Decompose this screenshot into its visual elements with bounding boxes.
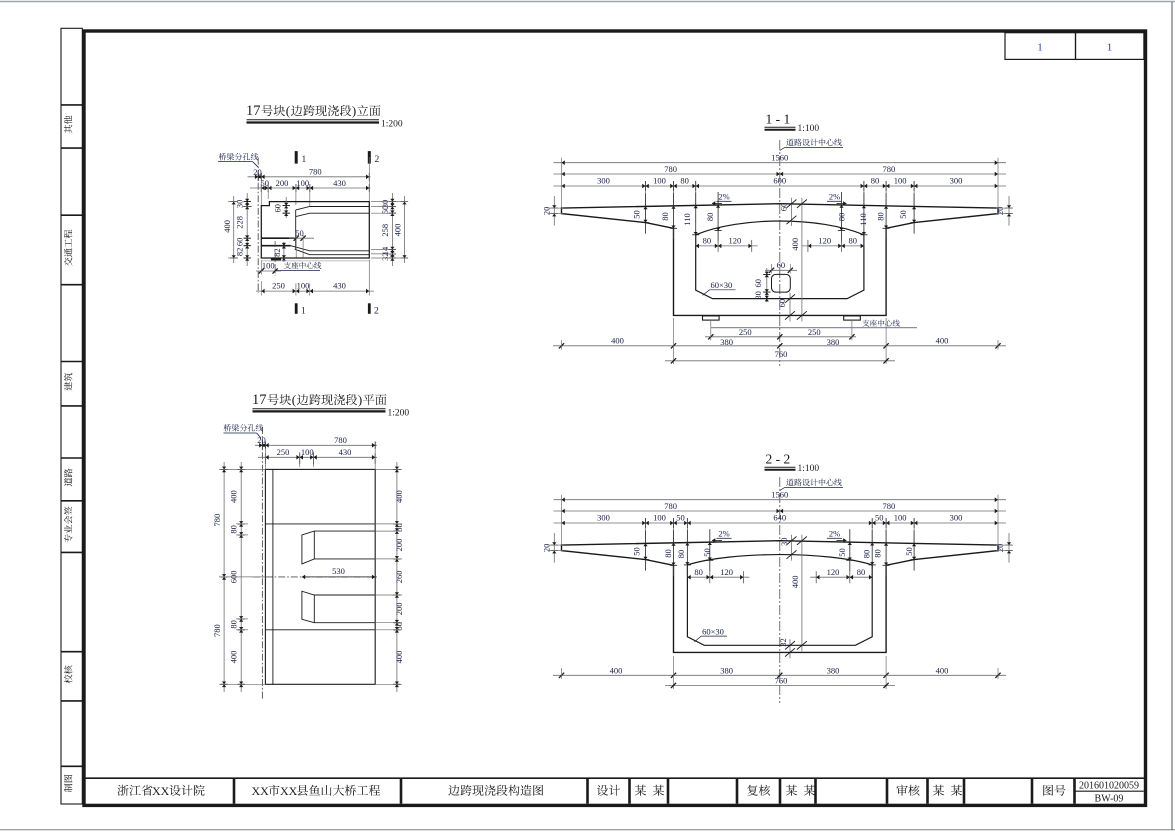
svg-text:80: 80 [848, 236, 857, 246]
svg-text:60: 60 [235, 238, 245, 247]
svg-text:780: 780 [664, 164, 677, 174]
svg-text:430: 430 [333, 281, 346, 291]
svg-text:1:200: 1:200 [381, 120, 403, 130]
dim row 760 (1-1) [665, 360, 895, 362]
svg-text:XX: XX [280, 784, 298, 798]
svg-text:60×30: 60×30 [711, 280, 733, 290]
svg-text:400: 400 [229, 490, 239, 503]
svg-text:250: 250 [739, 327, 752, 337]
title block cell 某 某 (reviewer) [933, 785, 962, 796]
svg-text:): ) [358, 392, 362, 407]
plan inner edge line [272, 469, 274, 684]
svg-text:780: 780 [883, 164, 896, 174]
svg-text:17: 17 [252, 392, 267, 408]
title block cell 审核 [896, 785, 919, 796]
svg-text:200: 200 [394, 603, 404, 616]
sidebar label 校核 [64, 665, 72, 683]
title block cell 复核 [747, 785, 770, 796]
svg-text:100: 100 [301, 447, 314, 457]
svg-text:60: 60 [779, 203, 789, 212]
svg-text:430: 430 [333, 178, 346, 188]
interior 80 120 dims [687, 576, 749, 578]
title block cell 图号 [1043, 785, 1065, 796]
svg-text:80: 80 [705, 213, 715, 222]
svg-text:100: 100 [653, 175, 666, 185]
plan upper void outline [302, 531, 375, 564]
sidebar label 交通工程 [64, 230, 72, 266]
svg-text:60: 60 [273, 204, 283, 213]
svg-text:250: 250 [272, 281, 285, 291]
svg-text:100: 100 [296, 178, 309, 188]
plan left witness lines [219, 468, 265, 470]
inner void outline [687, 555, 872, 646]
plan centerline dash-dot [253, 576, 378, 578]
svg-text:20: 20 [257, 435, 266, 445]
sidebar label 专业会签 [64, 506, 73, 542]
svg-text:1: 1 [302, 155, 307, 165]
svg-text:100: 100 [297, 281, 310, 291]
plan left outer chain 780/780 [223, 462, 225, 692]
svg-text:50: 50 [898, 210, 908, 219]
svg-text:120: 120 [827, 567, 840, 577]
small vertical dims near webs [645, 193, 647, 233]
svg-text:780: 780 [212, 624, 222, 637]
void left edge [295, 210, 297, 249]
drawing number cell divider [1075, 790, 1144, 792]
svg-text:100: 100 [894, 175, 907, 185]
svg-text:400: 400 [611, 336, 624, 346]
svg-text:780: 780 [664, 501, 677, 511]
grey helper line under girder bottom [262, 260, 370, 262]
svg-text:780: 780 [309, 167, 322, 177]
elevation girder outline [261, 202, 369, 258]
center oblique dims [791, 535, 793, 561]
svg-text:250: 250 [277, 447, 290, 457]
sidebar label 制图 [64, 775, 72, 792]
title block cell 某 某 (checker) [786, 785, 815, 796]
dim row 250 250 [705, 336, 856, 338]
svg-text:2%: 2% [718, 192, 729, 202]
svg-text:780: 780 [212, 514, 222, 527]
interior 80 120 dims [696, 245, 758, 247]
title block cell 设计 [597, 785, 620, 796]
svg-text:60: 60 [777, 299, 787, 308]
page number boxes top right [1005, 33, 1076, 60]
svg-text:780: 780 [334, 435, 347, 445]
svg-text:760: 760 [775, 675, 788, 685]
bearing pads (section 1-1) [703, 316, 720, 320]
svg-text:300: 300 [597, 512, 610, 522]
svg-text:400: 400 [222, 220, 232, 233]
svg-text:50: 50 [632, 547, 642, 556]
svg-text:120: 120 [729, 236, 742, 246]
svg-text:80: 80 [663, 549, 673, 558]
svg-text:50: 50 [875, 512, 884, 522]
svg-text:250: 250 [808, 327, 821, 337]
svg-text:400: 400 [610, 665, 623, 675]
dim row 760 (2-2) [665, 684, 895, 686]
svg-text:(: ( [286, 103, 290, 118]
drain hole (1-1) octagon [772, 274, 791, 292]
svg-text:2%: 2% [829, 192, 840, 202]
svg-text:50: 50 [260, 178, 269, 188]
svg-text:380: 380 [827, 665, 840, 675]
svg-text:2: 2 [375, 155, 380, 165]
center oblique dims [791, 198, 793, 226]
svg-text:32: 32 [778, 638, 788, 647]
svg-text:17: 17 [246, 103, 261, 119]
svg-text:80: 80 [676, 550, 686, 559]
svg-text:30: 30 [779, 538, 789, 547]
plan right witness lines [375, 468, 402, 470]
section mark 2 (bottom) [368, 303, 371, 314]
svg-text:300: 300 [950, 175, 963, 185]
svg-text:50: 50 [904, 547, 914, 556]
ledge lines in solid block [261, 237, 294, 239]
small vertical dims near webs [645, 530, 647, 570]
svg-text:228: 228 [235, 216, 245, 229]
girder cross-section outline [562, 541, 999, 653]
svg-text:640: 640 [773, 512, 786, 522]
dim row 1560 [554, 499, 1007, 501]
svg-text:200: 200 [276, 178, 289, 188]
drain hole height dims 60 / 30 [766, 268, 768, 302]
svg-text:2: 2 [374, 306, 379, 316]
dim row 300 100 80 600 80 100 300 [554, 185, 1007, 187]
drain hole width dim 60 [765, 269, 797, 271]
svg-text:2 - 2: 2 - 2 [766, 452, 791, 467]
elevation left dim chain 30 228 60 82 [246, 193, 248, 266]
plan bridge split line dash-dot [261, 427, 263, 700]
title block cell 浙江省XX设计院 [117, 785, 152, 796]
dim row 780 780 [554, 173, 1007, 175]
title block top line [84, 777, 1146, 779]
svg-text:50: 50 [676, 512, 685, 522]
svg-text:80: 80 [660, 212, 670, 221]
section vertical centerline [779, 140, 781, 366]
svg-text:2%: 2% [718, 529, 729, 539]
sidebar label 建筑 [64, 373, 72, 391]
svg-text:80: 80 [873, 549, 883, 558]
plan left inner chain 400 80 600 80 400 [240, 462, 242, 692]
svg-text:XX: XX [252, 784, 270, 798]
svg-text:1: 1 [1037, 42, 1043, 54]
dim row 400 380 380 400 (1-1) [553, 345, 1006, 347]
svg-text:82: 82 [235, 248, 245, 257]
page right edge line [1171, 2, 1173, 830]
svg-text:50: 50 [702, 548, 712, 557]
svg-text:600: 600 [773, 175, 786, 185]
sidebar divider lines [61, 104, 82, 106]
plan 530 dim on centerline [302, 575, 305, 580]
dim row 780 780 [554, 510, 1007, 512]
elevation right dim chain 30 50 258 14 32 [391, 193, 393, 266]
elevation dim row 50 200 100 430 [250, 187, 371, 189]
svg-text:(: ( [292, 392, 296, 407]
svg-text:50: 50 [394, 622, 404, 631]
svg-text:110: 110 [858, 213, 868, 225]
sidebar label 道路 [64, 468, 72, 486]
bearing centerline label 支座中心线 (1-1) [862, 320, 900, 327]
inner void outline [696, 221, 864, 299]
svg-text:760: 760 [775, 349, 788, 359]
bearing centerline [274, 241, 276, 276]
section vertical centerline [779, 477, 781, 703]
svg-text:80: 80 [229, 620, 239, 629]
svg-text:80: 80 [875, 212, 885, 221]
svg-text:120: 120 [818, 236, 831, 246]
girder cross-section outline [562, 204, 999, 316]
road design centerline label 道路设计中心线 [786, 139, 841, 146]
sidebar column outline [61, 28, 82, 804]
svg-text:200: 200 [394, 539, 404, 552]
top slab underside lines [296, 207, 370, 210]
dim 100 bearing offset [256, 270, 281, 272]
label 支座中心线 (elevation) [284, 262, 322, 269]
svg-text:100: 100 [894, 512, 907, 522]
svg-text:82: 82 [272, 248, 282, 257]
svg-text:400: 400 [936, 336, 949, 346]
82 dim at bearing ledge [283, 242, 285, 262]
witness lines top [561, 158, 563, 208]
svg-text:530: 530 [332, 566, 345, 576]
svg-text:80: 80 [680, 175, 689, 185]
svg-text:400: 400 [790, 576, 800, 589]
section mark 1 (top) [295, 151, 298, 164]
svg-text:380: 380 [720, 665, 733, 675]
svg-text:260: 260 [394, 571, 404, 584]
road design centerline label 道路设计中心线 [786, 479, 841, 486]
svg-text:80: 80 [861, 550, 871, 559]
svg-text:400: 400 [229, 651, 239, 664]
svg-text:BW-09: BW-09 [1095, 794, 1124, 805]
svg-text:110: 110 [682, 213, 692, 225]
page bottom edge line [0, 829, 1175, 831]
svg-text:60: 60 [753, 279, 763, 288]
svg-text:380: 380 [827, 337, 840, 347]
svg-text:100: 100 [653, 512, 666, 522]
svg-text:201601020059: 201601020059 [1079, 780, 1139, 791]
witness verticals from top dims [260, 179, 262, 206]
witness lines top [561, 495, 563, 545]
svg-text:1560: 1560 [771, 489, 788, 499]
svg-text:50: 50 [632, 210, 642, 219]
60 dim near step [285, 197, 287, 218]
svg-text:80: 80 [871, 175, 880, 185]
svg-text:80: 80 [836, 213, 846, 222]
title block cell 某 某 (designer) [635, 785, 664, 796]
title block cell dividers [233, 778, 236, 804]
svg-text:1560: 1560 [771, 152, 788, 162]
svg-text:60×30: 60×30 [702, 626, 724, 636]
svg-text:1:200: 1:200 [388, 409, 410, 419]
bearing pad (elevation) [271, 258, 281, 260]
elevation bottom dim 250 100 430 [256, 290, 374, 292]
label 桥梁分孔线 (plan) [224, 424, 264, 431]
plan lower void outline [302, 591, 375, 623]
svg-text:380: 380 [720, 337, 733, 347]
plan top dim row 20 | 780 [255, 444, 377, 446]
svg-text:80: 80 [857, 567, 866, 577]
svg-text:400: 400 [394, 651, 404, 664]
svg-text:400: 400 [392, 224, 402, 237]
svg-text:50: 50 [837, 548, 847, 557]
svg-text:30: 30 [235, 200, 245, 209]
svg-text:1:100: 1:100 [798, 464, 820, 474]
elevation right outer dim 400 [404, 196, 406, 263]
plan wing root line (bottom) [265, 629, 375, 631]
plan right chain 400 50 200 260 200 50 400 [396, 462, 398, 692]
plan dim row 250 100 430 [258, 456, 377, 458]
svg-text:300: 300 [950, 512, 963, 522]
svg-text:80: 80 [703, 236, 712, 246]
dim row 300 100 50 640 50 100 300 [554, 522, 1007, 524]
svg-text:1:100: 1:100 [798, 124, 820, 134]
plan wing root line (top) [265, 523, 375, 525]
svg-text:430: 430 [339, 447, 352, 457]
label 桥梁分孔线 [219, 153, 259, 160]
dim row 1560 [554, 162, 1007, 164]
svg-text:1: 1 [301, 306, 306, 316]
svg-text:400: 400 [790, 238, 800, 251]
svg-text:80: 80 [229, 525, 239, 534]
svg-text:258: 258 [380, 224, 390, 237]
svg-text:XX: XX [152, 784, 170, 798]
elevation top dim row 20 | 780 [248, 176, 371, 178]
svg-text:120: 120 [720, 567, 733, 577]
bridge split line (dash-dot) 桥梁分孔线 [257, 158, 259, 294]
dim row 400 380 380 400 (2-2) [553, 674, 1006, 676]
page top edge line [0, 1, 1175, 3]
svg-text:400: 400 [936, 665, 949, 675]
section mark 2 (top) [368, 151, 371, 164]
title block cell 边跨现浇段构造图 [448, 785, 543, 796]
svg-text:50: 50 [394, 523, 404, 532]
elevation left outer dim 400 [233, 196, 235, 263]
bottom slab haunch lines [291, 246, 370, 251]
svg-text:2%: 2% [829, 529, 840, 539]
tip thickness dims 20 [553, 533, 555, 563]
50 dim at void start [289, 237, 314, 239]
svg-text:300: 300 [597, 175, 610, 185]
svg-text:): ) [352, 103, 356, 118]
plan outer rectangle [265, 469, 375, 684]
svg-text:20: 20 [253, 167, 262, 177]
svg-text:30: 30 [753, 291, 763, 300]
svg-text:1 - 1: 1 - 1 [766, 112, 791, 127]
svg-text:60: 60 [777, 260, 786, 270]
tip thickness dims 20 [553, 196, 555, 226]
sidebar label 其他 [64, 116, 72, 134]
section mark 1 (bottom) [295, 303, 298, 314]
svg-text:100: 100 [262, 261, 275, 271]
svg-text:1: 1 [1107, 42, 1113, 54]
svg-text:400: 400 [394, 490, 404, 503]
svg-text:780: 780 [883, 501, 896, 511]
svg-text:80: 80 [694, 567, 703, 577]
